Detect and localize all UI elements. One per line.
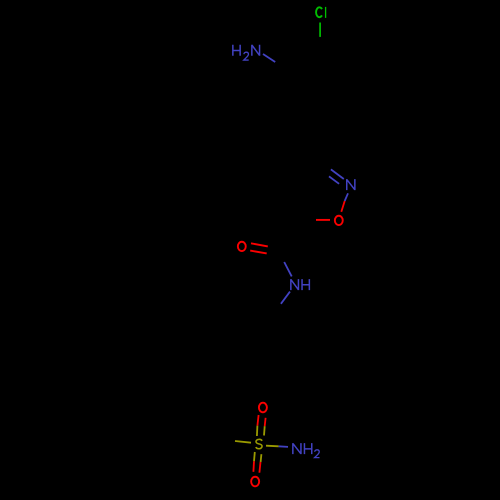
sulfonyl S=O top double bond right line oxygen half — [264, 418, 267, 426]
amide C=O double bond upper oxygen half — [251, 243, 268, 246]
bond C-Cl chlorine half — [319, 23, 321, 37]
bond S-N sulfur half — [266, 445, 279, 448]
isoxazole oxygen label O — [335, 216, 343, 225]
sulfonyl S=O bottom double bond left line oxygen half — [252, 461, 255, 472]
sulfonyl bottom oxygen label O — [251, 477, 259, 487]
isoxazole C3=N double bond inner half — [329, 176, 339, 183]
carbonyl oxygen label O — [238, 242, 246, 251]
sulfonyl S=O top double bond left line oxygen half — [257, 415, 258, 426]
amide C-N bond nitrogen half — [284, 262, 292, 276]
isoxazole O-C5 bond oxygen half — [316, 219, 330, 221]
sulfonyl S=O top double bond left line sulfur half — [256, 426, 259, 436]
sulfur label S — [256, 439, 262, 448]
bond N-C amine half — [263, 54, 275, 62]
chlorine label Cl — [316, 7, 326, 18]
amine label H2N — [233, 45, 260, 60]
sulfonamide label NH2 — [293, 443, 320, 458]
bond CH2-S sulfur half — [235, 441, 251, 443]
bond S-N nitrogen half — [279, 445, 288, 448]
isoxazole N-O bond oxygen half — [341, 201, 344, 212]
sulfonyl S=O bottom double bond right line sulfur half — [260, 454, 263, 462]
amide C=O double bond lower oxygen half — [250, 251, 267, 254]
isoxazole C3=N double bond outer half — [331, 169, 344, 179]
sulfonyl top oxygen label O — [259, 403, 267, 413]
isoxazole N-O bond nitrogen half — [345, 193, 348, 201]
sulfonyl S=O bottom double bond left line sulfur half — [253, 452, 256, 461]
isoxazole nitrogen label N — [347, 179, 355, 190]
sulfonyl S=O top double bond right line sulfur half — [263, 426, 266, 435]
bond NH-CH2 nitrogen half — [281, 292, 290, 304]
sulfonyl S=O bottom double bond right line oxygen half — [259, 462, 260, 473]
amide label NH — [291, 279, 310, 290]
